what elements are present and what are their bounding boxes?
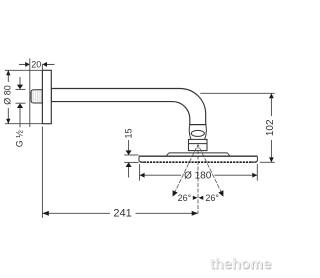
svg-text:102: 102 bbox=[265, 119, 276, 136]
head disc right edge bbox=[254, 156, 257, 162]
swivel cone left side bbox=[189, 125, 191, 139]
dim 20: right extension line (flange left face, upper part) bbox=[41, 64, 43, 71]
head disc left edge bbox=[139, 156, 142, 162]
svg-text:26°: 26° bbox=[205, 193, 219, 203]
G 1/2 thread dim: lower arrow + stem bbox=[19, 108, 21, 127]
G 1/2 thread dim: upper tick bbox=[16, 88, 26, 90]
svg-text:Ø 180: Ø 180 bbox=[184, 170, 212, 181]
dim O80: top extension line bbox=[5, 69, 42, 71]
head disc bottom right corner segment bbox=[251, 161, 257, 163]
dim O180: left extension line bbox=[139, 164, 141, 181]
connection nut bbox=[189, 139, 208, 150]
dim 15: lower arrow + stem bbox=[128, 167, 130, 178]
left spray line (dashed) bbox=[173, 145, 198, 196]
nut divider line bbox=[189, 143, 208, 145]
dim O80: bottom extension line bbox=[5, 123, 42, 125]
dim O180: dimension line segments bbox=[140, 174, 181, 176]
dim 15: lower extension line bbox=[124, 161, 138, 163]
svg-text:thehome: thehome bbox=[210, 257, 272, 273]
dim 241: left arrow bbox=[43, 211, 49, 216]
head disc bottom left corner segment bbox=[140, 161, 146, 163]
26deg arrow pointing left at centerline bbox=[199, 196, 204, 200]
shower arm tube with 90 degree bend bbox=[51, 89, 205, 125]
head plateau right step bbox=[227, 153, 230, 156]
head disc top line bbox=[139, 155, 257, 157]
G 1/2 thread dim: lower tick bbox=[16, 102, 26, 104]
dim O80: bottom arrow bbox=[6, 119, 10, 124]
dim 20: right arrow + tail bbox=[47, 63, 55, 65]
dim 20: left arrow + tail bbox=[19, 63, 25, 65]
dim 102: bottom arrow bbox=[269, 157, 274, 162]
left spray arrowhead bbox=[173, 190, 178, 196]
thread hatch stripes bbox=[33, 90, 40, 102]
svg-text:15: 15 bbox=[124, 128, 134, 138]
26deg arrow pointing right at centerline bbox=[193, 196, 198, 200]
head plateau left step bbox=[166, 153, 169, 156]
svg-text:241: 241 bbox=[113, 208, 131, 220]
dim O180: right extension line bbox=[256, 164, 258, 181]
joint top line bbox=[189, 124, 207, 126]
dim O80: top arrow bbox=[6, 70, 10, 75]
dim 102: top arrow bbox=[269, 93, 274, 98]
right spray line (dashed) bbox=[198, 145, 223, 196]
svg-text:26°: 26° bbox=[178, 193, 192, 203]
wall flange escutcheon bbox=[42, 70, 51, 123]
svg-text:20: 20 bbox=[31, 59, 41, 69]
G 1/2 thread dim: upper arrow + stem bbox=[19, 77, 21, 85]
dim 241: right arrow bbox=[192, 211, 198, 216]
ball joint ellipse bbox=[191, 130, 204, 136]
thread nipple body bbox=[31, 90, 43, 103]
dim 15: upper arrow + stem bbox=[128, 140, 130, 150]
dim O80: dimension line segments bbox=[7, 70, 9, 82]
head top plateau bbox=[169, 152, 228, 154]
dim O180: right arrow bbox=[252, 173, 257, 178]
dim 102: top extension line bbox=[200, 92, 274, 94]
spray centerline (dashed) bbox=[197, 145, 199, 214]
dim 15: upper extension line bbox=[124, 154, 138, 156]
dim O180: left arrow bbox=[140, 173, 145, 178]
svg-text:Ø 80: Ø 80 bbox=[3, 85, 13, 105]
dim 241: dimension line segments bbox=[42, 212, 110, 214]
dim 102: dimension line segments bbox=[270, 93, 272, 116]
dim 241: left extension line (flange face, lower part) bbox=[41, 127, 43, 218]
svg-text:G ½: G ½ bbox=[15, 130, 25, 148]
head spray face dashed band bbox=[144, 161, 254, 163]
dim 20: left extension line bbox=[29, 59, 31, 128]
right spray arrowhead bbox=[218, 190, 223, 196]
dim 102: bottom extension line bbox=[260, 161, 275, 163]
swivel cone right side bbox=[205, 125, 207, 139]
